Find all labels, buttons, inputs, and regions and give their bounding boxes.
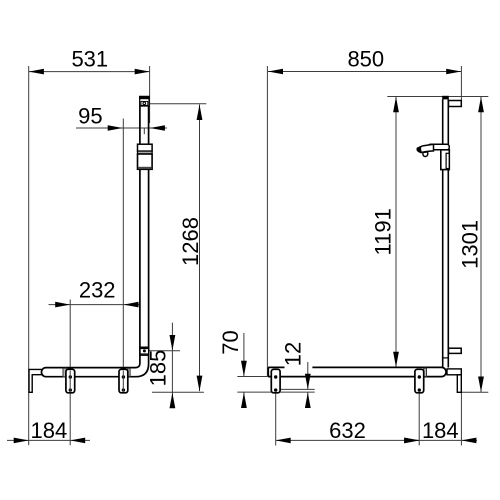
svg-text:1301: 1301 — [458, 220, 483, 269]
svg-text:531: 531 — [71, 46, 108, 71]
svg-text:95: 95 — [78, 103, 102, 128]
svg-text:12: 12 — [281, 342, 306, 366]
svg-text:1191: 1191 — [371, 208, 396, 255]
svg-text:632: 632 — [329, 418, 366, 443]
svg-text:184: 184 — [422, 418, 459, 443]
svg-text:232: 232 — [79, 277, 116, 302]
svg-text:185: 185 — [146, 350, 171, 387]
svg-text:850: 850 — [347, 47, 384, 72]
svg-text:1268: 1268 — [178, 217, 203, 266]
svg-text:184: 184 — [31, 418, 68, 443]
svg-text:70: 70 — [218, 330, 243, 354]
